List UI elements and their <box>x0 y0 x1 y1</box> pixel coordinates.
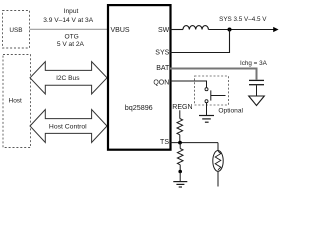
svg-text:BAT: BAT <box>156 65 170 72</box>
svg-text:3.9 V–14 V at 3A: 3.9 V–14 V at 3A <box>43 17 93 24</box>
USB box <box>3 11 30 49</box>
wire R1 to TS node <box>179 135 181 143</box>
svg-text:SYS: SYS <box>155 50 169 57</box>
optional box (dashed) <box>195 76 229 105</box>
svg-text:USB: USB <box>9 27 22 34</box>
wire inductor to SYS arrow <box>208 29 274 31</box>
arrowhead SYS output <box>273 27 278 32</box>
Host box <box>3 55 31 148</box>
svg-text:Optional: Optional <box>218 107 243 114</box>
svg-text:VBUS: VBUS <box>111 27 130 34</box>
capacitor C1 (BAT) <box>249 79 264 81</box>
svg-text:I2C Bus: I2C Bus <box>56 75 80 82</box>
wire TS node to thermistor <box>217 143 219 151</box>
svg-text:QON: QON <box>153 79 169 86</box>
wire switch to ground <box>206 103 208 115</box>
ground (triangle, BAT cap) <box>249 96 265 106</box>
wire VBUS input (USB to IC) <box>30 28 109 30</box>
IC U1 bq25896 body <box>108 5 171 150</box>
node TS junction <box>178 141 182 145</box>
switch S1 actuator <box>210 90 212 100</box>
thermistor RT1 <box>213 151 223 172</box>
wire TS pin to thermistor <box>170 142 218 144</box>
svg-text:Ichg = 3A: Ichg = 3A <box>240 60 268 67</box>
wire thermistor down <box>217 171 219 186</box>
svg-text:OTG: OTG <box>64 34 78 41</box>
ground (earth, switch) <box>199 115 214 117</box>
node SYS junction <box>228 28 232 32</box>
arrow Host Control <box>30 110 107 143</box>
svg-text:TS: TS <box>160 139 169 146</box>
wire REGN down <box>179 110 181 118</box>
resistor R1 (REGN-TS) <box>177 119 183 135</box>
wire cap to ground <box>256 85 258 96</box>
svg-text:5 V at 2A: 5 V at 2A <box>57 41 85 48</box>
ground (earth, TS divider) <box>173 181 187 183</box>
svg-text:bq25896: bq25896 <box>125 103 153 112</box>
svg-text:REGN: REGN <box>172 104 192 111</box>
resistor R2 (TS-GND) <box>179 143 181 149</box>
svg-text:SW: SW <box>158 27 170 34</box>
wire to ground <box>179 172 181 182</box>
svg-text:Host: Host <box>9 97 23 104</box>
arrow I2C Bus <box>30 62 107 94</box>
wire QON to switch <box>170 81 207 88</box>
wire SW to inductor <box>170 29 183 31</box>
wire SYS feedback to SYS pin <box>170 30 230 53</box>
svg-text:Input: Input <box>64 8 79 15</box>
switch S1 contacts <box>205 88 208 91</box>
wire BAT (thick grey) <box>170 69 257 80</box>
svg-text:SYS 3.5 V–4.5 V: SYS 3.5 V–4.5 V <box>219 16 267 23</box>
node R2 bottom junction <box>178 170 182 174</box>
inductor L1 <box>183 26 208 30</box>
svg-text:Host Control: Host Control <box>49 124 87 131</box>
